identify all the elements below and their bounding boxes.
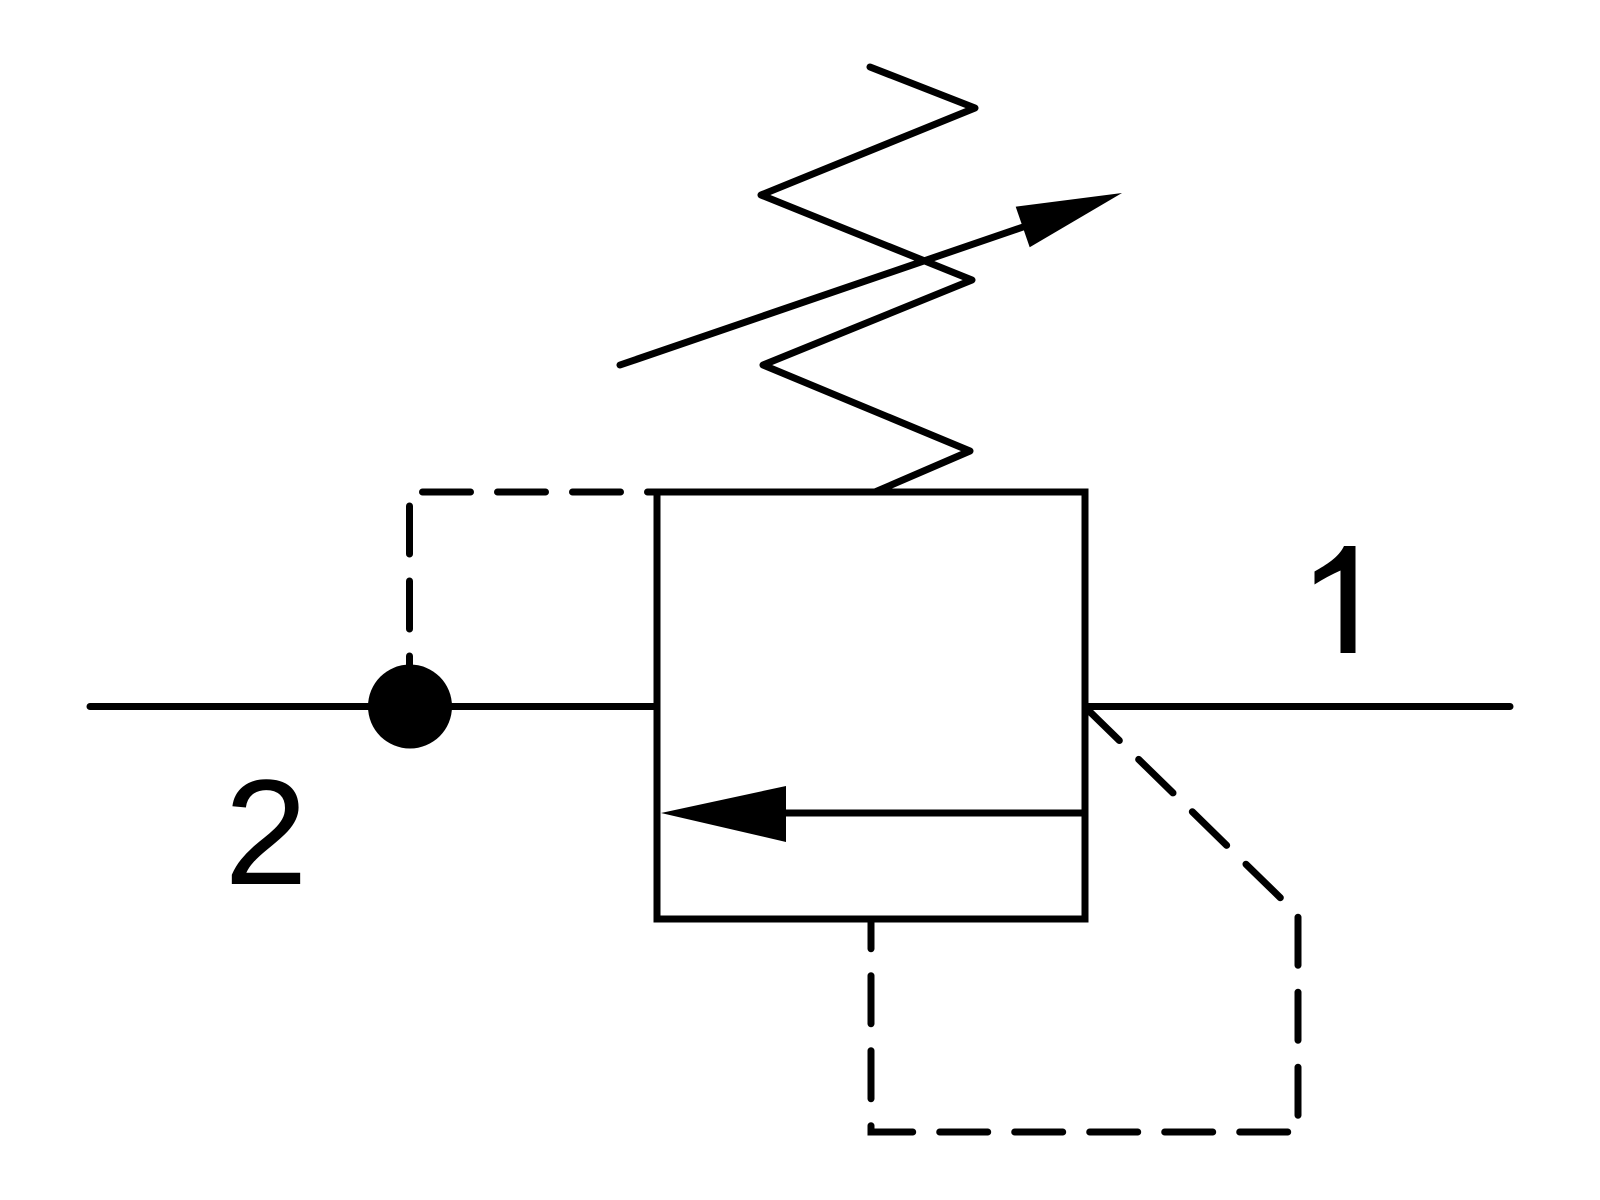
- wire: dashed drain line from port 1 to box bottom: [871, 707, 1298, 1132]
- wire: port 2 line (left): [90, 703, 657, 710]
- wire: port 1 line (right): [1085, 703, 1510, 710]
- label: port 1: [1315, 546, 1356, 653]
- adjustment arrow through spring: [620, 193, 1122, 365]
- node: junction dot on port 2 line: [368, 665, 452, 749]
- valve body box: [657, 492, 1085, 919]
- spring (zigzag) on box top: [761, 67, 975, 492]
- svg-text:2: 2: [224, 748, 307, 916]
- flow arrow inside valve box: [661, 786, 1085, 842]
- wire: dashed pilot line from node to box top-left: [410, 492, 658, 665]
